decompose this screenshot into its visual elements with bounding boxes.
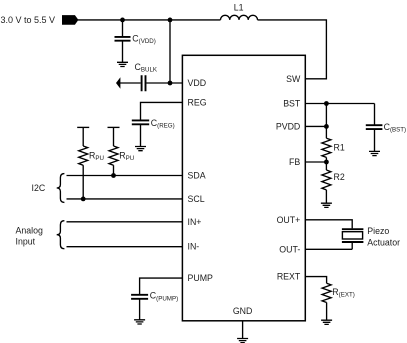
svg-text:Piezo: Piezo <box>367 226 389 236</box>
wire PVDD <box>305 125 326 127</box>
wire PUMP <box>140 278 183 294</box>
pull-up rail stub left <box>77 126 89 128</box>
svg-text:SDA: SDA <box>188 170 206 180</box>
ground (C(VDD)) <box>117 62 128 66</box>
wire REXT <box>305 277 326 284</box>
svg-text:BST: BST <box>283 99 301 109</box>
inductor L1 <box>221 15 258 20</box>
svg-text:RPU: RPU <box>89 151 104 163</box>
junction: C(VDD) tap <box>120 18 125 23</box>
capacitor C(PUMP) <box>131 291 178 320</box>
junction: VDD pin node <box>168 81 173 86</box>
ground (R2) <box>321 203 332 207</box>
wire FB <box>305 161 326 163</box>
junction: VDD branch tap <box>168 18 173 23</box>
ground (R(EXT)) <box>321 320 332 324</box>
junction: FB node <box>324 160 329 165</box>
svg-text:R(EXT): R(EXT) <box>332 287 355 299</box>
svg-text:GND: GND <box>233 306 253 316</box>
svg-text:FB: FB <box>289 157 300 167</box>
ground (C(BST)) <box>369 151 380 155</box>
svg-text:Actuator: Actuator <box>367 237 400 247</box>
svg-text:IN-: IN- <box>188 242 200 252</box>
svg-text:C(BST): C(BST) <box>384 122 407 134</box>
wire OUT+ <box>305 220 352 229</box>
svg-text:C(VDD): C(VDD) <box>132 33 156 45</box>
wire: VDD branch vertical <box>169 20 171 83</box>
svg-text:REG: REG <box>188 97 207 107</box>
resistor R(EXT) <box>322 283 355 319</box>
supply input connector <box>62 15 78 25</box>
pull-up rail stub right <box>108 126 120 128</box>
svg-text:C(REG): C(REG) <box>151 118 175 130</box>
svg-text:SCL: SCL <box>188 194 205 204</box>
wire SCL <box>67 198 183 200</box>
svg-text:Input: Input <box>16 236 36 246</box>
brace (I2C bus) <box>57 174 65 203</box>
wire: supply rail top <box>78 19 221 21</box>
svg-text:Analog: Analog <box>16 226 43 236</box>
wire GND pin <box>242 321 244 338</box>
svg-text:RPU: RPU <box>119 151 134 163</box>
svg-text:3.0 V to 5.5 V: 3.0 V to 5.5 V <box>1 15 56 25</box>
svg-text:OUT+: OUT+ <box>277 215 301 225</box>
piezo actuator <box>342 229 364 249</box>
junction: SCL pull-up <box>81 197 86 202</box>
capacitor C(REG) <box>132 118 175 147</box>
svg-text:OUT-: OUT- <box>279 244 300 254</box>
ground (GND pin) <box>237 339 248 343</box>
resistor R2 <box>322 162 345 203</box>
svg-text:PVDD: PVDD <box>276 121 300 131</box>
svg-text:I2C: I2C <box>32 183 46 193</box>
brace (Analog Input) <box>57 221 65 249</box>
svg-text:PUMP: PUMP <box>188 273 214 283</box>
resistor RPU (SCL) <box>79 127 104 198</box>
junction: BST node <box>324 101 329 106</box>
svg-text:REXT: REXT <box>277 272 301 282</box>
wire IN+ <box>67 221 183 223</box>
svg-text:C(PUMP): C(PUMP) <box>150 291 178 303</box>
svg-text:SW: SW <box>286 74 301 84</box>
ground (C(PUMP)) <box>134 320 145 324</box>
svg-text:R1: R1 <box>334 143 345 153</box>
wire OUT- <box>305 248 352 250</box>
capacitor C_BULK <box>116 62 182 91</box>
capacitor C(VDD) <box>115 20 156 62</box>
wire: L1 to SW <box>258 20 327 79</box>
svg-text:L1: L1 <box>234 2 244 12</box>
wire: BST to PVDD rail <box>325 104 327 127</box>
svg-text:VDD: VDD <box>188 78 207 88</box>
wire REG <box>141 102 183 120</box>
svg-text:R2: R2 <box>334 172 345 182</box>
ground (C(REG)) <box>135 147 146 151</box>
resistor RPU (SDA) <box>109 127 134 175</box>
resistor R1 <box>322 126 345 162</box>
junction: SDA pull-up <box>111 173 116 178</box>
wire SDA <box>67 175 183 177</box>
IC U1 DRV2667 <box>182 55 305 321</box>
wire IN- <box>67 246 183 248</box>
svg-text:IN+: IN+ <box>188 217 202 227</box>
wire BST <box>305 103 374 105</box>
capacitor C(BST) <box>366 104 406 152</box>
junction: PVDD node <box>324 124 329 129</box>
svg-text:CBULK: CBULK <box>135 62 158 74</box>
